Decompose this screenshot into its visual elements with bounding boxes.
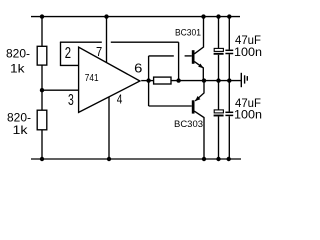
capacitor C1 47uF top wire: [218, 17, 220, 49]
svg-text:4: 4: [117, 92, 123, 106]
svg-text:2: 2: [65, 45, 71, 62]
junction dot top rail / C2: [227, 14, 231, 18]
wire: negative supply rail (bottom): [31, 158, 241, 160]
transistor Q2 BC303 emitter arrowhead: [195, 96, 200, 101]
svg-text:100n: 100n: [234, 45, 262, 59]
svg-text:741: 741: [85, 73, 99, 84]
wire: left divider column bottom segment: [41, 130, 43, 159]
transistor Q1 BC301 emitter arrowhead: [198, 64, 203, 69]
wire: pin 7 to positive rail: [106, 17, 108, 63]
capacitor C4 100n bottom wire: [228, 116, 230, 159]
transistor Q2 BC303 base bar: [192, 100, 195, 113]
junction dot feedback tap: [176, 78, 180, 82]
capacitor C4 100n plates: [225, 111, 233, 113]
junction dot output line / C2 C4: [227, 78, 231, 82]
junction dot output line / C1 C3: [216, 78, 220, 82]
wire: BC303 base run: [149, 105, 192, 107]
junction dot emitters node: [202, 78, 206, 82]
junction dot bottom rail / C3: [216, 157, 220, 161]
wire: pin 3 input stub: [42, 89, 79, 91]
wire: feedback run (right of hop): [111, 41, 179, 43]
capacitor C2 100n top wire: [228, 17, 230, 50]
wire: BC301 base run (right of hop): [185, 55, 192, 57]
op-amp U1 741 triangle: [79, 47, 140, 112]
svg-text:1k: 1k: [13, 123, 29, 137]
svg-text:7: 7: [96, 44, 102, 59]
resistor R2 (820-1k lower): [37, 110, 47, 130]
transistor Q2 BC303 emitter lead: [195, 81, 204, 101]
capacitor C1 47uF bottom wire: [218, 55, 220, 81]
wire: between divider resistors: [41, 65, 43, 110]
svg-text:3: 3: [68, 92, 74, 109]
wire: left divider column top segment: [41, 17, 43, 47]
transistor Q1 BC301 emitter lead: [194, 62, 203, 81]
junction dot top rail / Q1 collector: [201, 14, 205, 18]
wire: feedback vertical drop: [178, 42, 180, 80]
svg-text:100n: 100n: [234, 107, 262, 121]
resistor R1 (820-1k upper): [37, 46, 47, 65]
capacitor C3 47uF top wire: [218, 81, 220, 110]
wire: pin 2 stub: [61, 42, 79, 65]
junction dot bottom rail / divider: [40, 157, 44, 161]
svg-text:BC301: BC301: [175, 28, 201, 39]
junction dot divider midpoint node: [40, 88, 44, 92]
capacitor C3 47uF negative plate: [214, 115, 224, 117]
transistor Q1 BC301 collector lead: [194, 17, 203, 54]
capacitor C3 47uF bottom wire: [218, 117, 220, 160]
svg-text:BC303: BC303: [174, 119, 203, 130]
wire: positive supply rail (top): [31, 16, 240, 18]
capacitor C2 100n plates: [225, 49, 233, 51]
capacitor C1 47uF positive plate (box): [214, 48, 223, 51]
junction dot top rail / divider: [40, 14, 44, 18]
junction dot bottom rail / pin 4: [107, 157, 111, 161]
output terminal bars: [240, 73, 242, 87]
transistor Q2 BC303 collector lead: [194, 111, 204, 159]
wire: pin 4 to negative rail: [108, 97, 110, 159]
wire: BC301 base run (left of hop): [149, 55, 174, 57]
capacitor C3 47uF positive plate (box): [214, 110, 223, 113]
transistor Q1 BC301 base bar: [192, 50, 195, 64]
junction dot output node at pin 6: [146, 78, 150, 82]
svg-text:1k: 1k: [10, 61, 26, 75]
svg-text:820-: 820-: [6, 47, 30, 61]
wire: feedback run (left of hop): [60, 41, 102, 43]
junction dot bottom rail / Q2 collector: [202, 157, 206, 161]
svg-text:6: 6: [134, 62, 142, 76]
wire: base bus vertical: [148, 56, 150, 106]
junction dot top rail / pin 7: [104, 14, 108, 18]
junction dot top rail / C1: [216, 14, 220, 18]
wire: output line to capacitors and terminal: [204, 80, 241, 82]
resistor R3 (series output): [154, 77, 171, 84]
wire: output pin 6 to node: [141, 80, 153, 82]
capacitor C1 47uF negative plate: [214, 53, 224, 55]
capacitor C2 100n bottom wire: [228, 54, 230, 80]
wire: resistor to emitter node: [171, 80, 204, 82]
junction dot bottom rail / C4: [227, 157, 231, 161]
capacitor C4 100n top wire: [228, 81, 230, 112]
